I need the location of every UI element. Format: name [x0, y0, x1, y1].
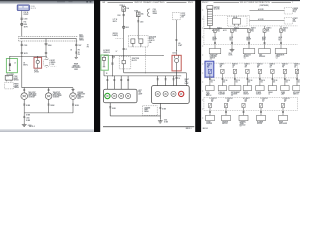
ground G301 — [158, 119, 168, 123]
svg-text:GY: GY — [284, 101, 286, 103]
wire below red box — [175, 72, 180, 86]
fuse bus3 FUSE 17 — [242, 98, 250, 108]
svg-text:WRNG: WRNG — [79, 40, 85, 42]
splice bus dashed outline — [19, 36, 78, 41]
svg-text:C306: C306 — [172, 52, 176, 54]
svg-text:DG: DG — [223, 82, 225, 84]
svg-text:18 BK: 18 BK — [164, 121, 168, 123]
svg-text:2: 2 — [292, 2, 293, 4]
svg-text:SWITCH: SWITCH — [222, 123, 227, 125]
component WIPER bus2 — [243, 86, 251, 96]
wire lamp drop — [23, 88, 25, 93]
svg-text:C1: C1 — [279, 40, 281, 42]
wire lamp to ground rail — [48, 99, 56, 112]
svg-text:18: 18 — [178, 78, 180, 80]
component INSTRUMENT bus2 — [229, 86, 241, 98]
page separator bar 1 — [94, 0, 100, 132]
svg-text:C1: C1 — [125, 49, 127, 51]
fuse bus2 FUSE 8 — [207, 64, 212, 74]
svg-text:C1: C1 — [7, 76, 9, 78]
svg-text:C1: C1 — [268, 94, 270, 96]
tail rail lower — [104, 74, 181, 77]
lamp 6 — [163, 91, 168, 96]
lamp label — [77, 92, 85, 100]
svg-text:C200: C200 — [24, 18, 28, 20]
svg-text:JUNCTION: JUNCTION — [149, 36, 156, 38]
svg-text:C302: C302 — [14, 76, 18, 78]
svg-text:PK: PK — [282, 67, 284, 69]
splice arrow — [72, 89, 75, 91]
fuse FUSE 1 row1 — [214, 28, 222, 33]
lamp label — [53, 91, 62, 99]
component BLOCK row1 — [243, 49, 255, 60]
pdc feed rail — [204, 28, 250, 29]
component dashed box top right — [173, 12, 186, 19]
ground rail middle page — [110, 114, 161, 117]
wire to generator — [249, 8, 284, 11]
svg-text:JUNCTION: JUNCTION — [132, 58, 139, 60]
fuse bus3 FUSE 18 — [259, 98, 267, 108]
svg-text:L50: L50 — [178, 43, 181, 45]
svg-text:L7: L7 — [14, 63, 16, 65]
svg-text:RD: RD — [207, 67, 209, 69]
in-line fuse (highlighted red) F3 — [34, 57, 42, 69]
svg-text:8W-10 POWER DISTRIBUTION: 8W-10 POWER DISTRIBUTION — [240, 2, 271, 4]
splice arrow tap3 — [75, 57, 78, 59]
connector C302 left column — [5, 76, 19, 82]
component STOP bus2 — [206, 86, 214, 98]
wire to starter — [249, 18, 284, 21]
svg-text:OR: OR — [245, 101, 247, 103]
svg-text:S300: S300 — [24, 24, 28, 26]
splice S300 — [21, 23, 28, 26]
right page sheet number — [203, 128, 208, 130]
wire below green connector — [104, 71, 107, 76]
fuse bus2 FUSE 11 — [245, 64, 251, 74]
component POWER bus2 — [256, 86, 264, 96]
svg-text:C303: C303 — [51, 64, 55, 66]
wire label — [24, 21, 27, 23]
svg-text:DG: DG — [211, 82, 213, 84]
junction block 2 dashed box — [119, 56, 139, 69]
svg-text:STOP: STOP — [34, 70, 38, 72]
connector on F1 wire — [117, 15, 125, 18]
svg-text:DG: DG — [294, 67, 296, 69]
svg-text:18 BK/WT: 18 BK/WT — [53, 97, 60, 99]
svg-text:PDC: PDC — [251, 30, 254, 32]
fuse block bus 3 dashed outline — [204, 98, 298, 111]
relay in pdc dashed box — [227, 16, 247, 26]
svg-text:PDC: PDC — [283, 30, 286, 32]
connector C305 on tap1 — [21, 44, 28, 47]
svg-text:FUSE 10: FUSE 10 — [149, 40, 155, 42]
fuse bus2 FUSE 14 — [282, 63, 288, 74]
svg-text:SWITCH: SWITCH — [206, 95, 211, 97]
svg-text:DG: DG — [273, 82, 275, 84]
fuse block bus dashed outline — [204, 63, 298, 78]
off-page reference label tap3 — [72, 63, 82, 71]
svg-text:STOP: STOP — [181, 13, 185, 15]
svg-text:8W: 8W — [102, 2, 105, 4]
wire below junction block 2 — [123, 69, 125, 73]
svg-text:C2: C2 — [276, 57, 278, 59]
connector oval label — [51, 60, 57, 66]
svg-text:18: 18 — [70, 50, 72, 52]
ground G300 — [22, 123, 32, 127]
wire right assembly ground — [159, 103, 166, 119]
connector on tap3 — [75, 44, 82, 47]
wire label center branch — [14, 63, 28, 67]
svg-text:8W-10 2: 8W-10 2 — [202, 2, 208, 4]
wire bus2 drop — [284, 74, 290, 86]
wire lamp drop — [48, 88, 50, 93]
svg-text:FUSE: FUSE — [31, 6, 35, 8]
component dashed box left column — [5, 83, 20, 90]
svg-text:WRNG: WRNG — [14, 80, 20, 82]
svg-text:C1: C1 — [240, 126, 242, 128]
svg-text:YL: YL — [262, 101, 264, 103]
svg-text:C1: C1 — [230, 40, 232, 42]
wire second drop — [111, 55, 113, 76]
svg-text:8W-51-1: 8W-51-1 — [186, 128, 192, 130]
wire label F32 — [24, 12, 29, 16]
fuse bus2 FUSE 15 — [294, 64, 300, 74]
wire bus2 drop — [296, 74, 302, 86]
svg-text:LICENSE: LICENSE — [144, 107, 150, 109]
svg-text:BK: BK — [257, 67, 259, 69]
top window edge — [0, 0, 300, 1]
svg-text:8W-51 REAR LIGHTING: 8W-51 REAR LIGHTING — [135, 1, 166, 4]
wire bus3 drop — [282, 108, 284, 116]
wire label F1 — [113, 19, 118, 23]
svg-text:18 BK/WT: 18 BK/WT — [28, 97, 35, 99]
component BLOWER bus3 — [257, 115, 266, 125]
svg-text:PK/WT: PK/WT — [24, 14, 29, 16]
wire ground drop — [23, 113, 25, 123]
wire bus3 drop — [225, 108, 227, 116]
svg-text:DEFOGGER: DEFOGGER — [72, 67, 82, 69]
wire tap 2 down — [45, 39, 47, 57]
svg-text:8W-10-2: 8W-10-2 — [203, 128, 208, 130]
svg-text:18: 18 — [23, 63, 25, 65]
wire bus2 drop — [247, 74, 253, 86]
component MODULE row1 — [259, 49, 271, 59]
wire from stop lamp switch — [175, 20, 177, 56]
svg-text:(CONTINUED): (CONTINUED) — [260, 5, 269, 7]
svg-text:BODY: BODY — [51, 60, 55, 62]
svg-text:G301: G301 — [164, 120, 168, 122]
splice arrow on tap2 — [45, 44, 52, 47]
ground wire labels — [26, 115, 31, 123]
lamp 2 — [112, 93, 117, 98]
switch connector (highlighted green) S1 — [6, 57, 17, 73]
svg-text:DEFOGGER: DEFOGGER — [279, 123, 287, 125]
wire bus2 drop — [272, 74, 278, 86]
connector ticks below junction block — [123, 49, 128, 52]
wire bus3 drop — [209, 108, 211, 116]
component FIELD row1 — [275, 49, 287, 60]
svg-text:18: 18 — [78, 52, 80, 54]
svg-text:PDC: PDC — [217, 30, 220, 32]
fuse FUSE 2 row1 — [231, 28, 239, 33]
svg-text:C307: C307 — [78, 45, 82, 47]
dashed continuation wire — [145, 47, 147, 73]
middle page sheet number — [186, 128, 192, 130]
svg-text:DG: DG — [236, 82, 238, 84]
wire row1 drop — [213, 32, 218, 48]
svg-text:LP SW: LP SW — [34, 72, 39, 74]
right lamp assembly label — [185, 79, 189, 85]
license lamp dashed box — [143, 106, 158, 116]
svg-text:WRNG: WRNG — [14, 87, 20, 89]
fuse bus2 FUSE 13 — [270, 64, 276, 74]
svg-text:BODY: BODY — [153, 11, 157, 13]
fuse bus3 FUSE 16 — [224, 98, 232, 108]
svg-text:8W-51-2: 8W-51-2 — [29, 126, 35, 128]
svg-text:18: 18 — [106, 73, 108, 75]
connector C200 — [20, 18, 27, 20]
svg-text:LB: LB — [270, 67, 272, 69]
svg-text:MOTOR: MOTOR — [257, 123, 262, 125]
lamp TAIL/STOP — [45, 93, 52, 100]
wire left assembly ground — [109, 103, 116, 116]
wire lamp drop — [72, 88, 74, 93]
svg-text:S302: S302 — [126, 27, 129, 29]
wire from fuse F2 — [137, 17, 143, 36]
node splice taps — [21, 37, 76, 40]
svg-text:LEFT: LEFT — [138, 90, 142, 92]
right page title bar — [202, 2, 293, 4]
splice bus label — [79, 34, 85, 41]
wire bus2 drop — [259, 74, 265, 86]
wire tap 3 down — [75, 39, 81, 58]
connector ticks tap2 lower — [45, 52, 47, 53]
wire label right margin — [87, 45, 90, 49]
svg-text:MODULE: MODULE — [259, 56, 265, 58]
tail feed rail middle page — [104, 54, 164, 57]
svg-text:BK/YL: BK/YL — [113, 21, 117, 23]
wire label — [24, 27, 29, 29]
splice S302 — [123, 26, 129, 29]
svg-text:C1: C1 — [262, 40, 264, 42]
wire lamp to ground rail — [23, 99, 31, 112]
lamp LICENSE — [70, 93, 77, 100]
svg-text:L7: L7 — [116, 51, 118, 53]
svg-text:12 BK: 12 BK — [229, 54, 233, 56]
svg-text:18: 18 — [87, 45, 89, 47]
stop rail — [124, 72, 187, 85]
svg-text:C1: C1 — [247, 40, 249, 42]
ground rail — [24, 112, 73, 114]
svg-text:F32 18: F32 18 — [24, 12, 29, 14]
connector (highlighted green) middle page — [101, 55, 108, 70]
wire bus3 drop — [260, 108, 262, 116]
svg-text:BLOCK: BLOCK — [149, 38, 154, 40]
svg-text:SOL: SOL — [293, 21, 296, 23]
svg-text:C1: C1 — [210, 59, 212, 61]
svg-text:WINDOW: WINDOW — [73, 65, 80, 67]
svg-text:DG: DG — [298, 82, 300, 84]
wire row1 drop — [247, 32, 251, 48]
svg-text:PDC: PDC — [267, 30, 270, 32]
connector ticks tap1 lower — [21, 52, 29, 55]
component LEVELING row1 — [209, 49, 221, 61]
svg-text:DG: DG — [248, 82, 250, 84]
splice arrow on rail — [112, 57, 115, 59]
svg-text:WRNG: WRNG — [144, 111, 148, 113]
left tail lamp assembly — [103, 89, 137, 103]
fuse F1 middle page — [120, 4, 129, 11]
left page bottom sheet label — [29, 126, 35, 128]
middle page bottom frame — [103, 126, 194, 128]
red fuse label — [34, 70, 39, 74]
fuse bus2 FUSE 9 — [220, 64, 225, 74]
svg-text:18 WT: 18 WT — [178, 45, 182, 47]
svg-text:BODY: BODY — [79, 38, 83, 40]
svg-text:S301: S301 — [79, 34, 83, 36]
svg-text:L77 18: L77 18 — [113, 19, 118, 21]
svg-text:C305: C305 — [24, 45, 28, 47]
connector oval C303 — [43, 57, 49, 68]
component TURN SIG bus2 — [218, 86, 226, 96]
svg-text:18 BK: 18 BK — [112, 108, 116, 110]
page separator bar 2 — [195, 0, 201, 132]
svg-text:C1: C1 — [213, 40, 215, 42]
wire center branch down — [21, 57, 23, 88]
svg-text:RIGHT: RIGHT — [185, 79, 189, 81]
lamp TAIL/STOP — [21, 93, 28, 100]
red box top label — [172, 52, 176, 54]
wire label tap3 — [70, 50, 80, 52]
starter dashed box — [284, 17, 298, 24]
svg-text:C100: C100 — [153, 9, 157, 11]
fuse bus2 FUSE 12 — [257, 64, 263, 74]
wire bus2 drop — [209, 74, 215, 86]
svg-text:WRNG C2: WRNG C2 — [103, 52, 110, 54]
component GROUND row1 — [229, 48, 235, 56]
wire row1 drop — [279, 32, 283, 48]
left page bottom scrollbar strip — [0, 129, 94, 132]
fuse block (highlighted) left page — [17, 5, 29, 11]
pdc dashed outline top — [213, 16, 297, 26]
component CIGAR bus3 — [206, 115, 215, 125]
connector grid C100 — [147, 9, 157, 16]
right lamp assembly feed wires — [157, 76, 175, 86]
svg-text:BODY: BODY — [14, 78, 18, 80]
wire from fuse F1 — [123, 11, 125, 55]
wire lamp to ground rail — [72, 99, 80, 112]
component HTD SEAT bus2 — [293, 86, 300, 96]
lamp feed rail — [22, 87, 73, 89]
fuse FUSE 5 row1 — [280, 26, 288, 33]
component IGNITION bus3 — [222, 115, 231, 125]
node rail junctions — [9, 55, 38, 58]
wire battery to pdc rail — [209, 26, 211, 29]
fuse F2 middle page — [134, 10, 143, 16]
svg-text:C2: C2 — [231, 95, 233, 97]
connector ticks — [48, 90, 50, 91]
svg-text:LG: LG — [232, 67, 234, 69]
fuse FUSE 4 row1 — [263, 26, 271, 33]
lamp 8 red highlighted — [179, 91, 184, 96]
svg-text:RD: RD — [227, 101, 229, 103]
junction block dashed box middle — [128, 35, 156, 47]
left note block — [113, 33, 123, 38]
svg-text:BLOCK: BLOCK — [132, 60, 137, 62]
svg-text:G300: G300 — [77, 98, 81, 100]
wire label left of F1 wire — [116, 51, 118, 53]
subtitle continued — [260, 5, 269, 7]
svg-text:OUTLET: OUTLET — [256, 94, 262, 96]
component REAR bus3 — [279, 115, 288, 125]
right tail lamp assembly — [152, 86, 190, 104]
node lamp rail taps — [24, 86, 49, 89]
svg-text:C5: C5 — [244, 57, 246, 59]
labels above rail — [103, 49, 110, 54]
svg-text:TN: TN — [220, 67, 222, 69]
wire label stop lamp — [178, 43, 182, 47]
svg-text:8W-51: 8W-51 — [188, 2, 193, 4]
middle page title bar — [102, 1, 193, 4]
green connector label — [7, 74, 15, 78]
svg-text:C200: C200 — [117, 15, 121, 17]
fuse bus3 FUSE 19 — [281, 98, 289, 108]
wire bus2 drop — [234, 74, 240, 86]
fuse FUSE 3 row1 — [248, 28, 256, 33]
svg-text:SWITCH: SWITCH — [293, 94, 298, 96]
svg-text:WRNG: WRNG — [153, 13, 157, 15]
wire row1 drop — [262, 32, 266, 48]
fuse highlighted blue — [205, 61, 214, 77]
pdc lower dashed outline — [204, 16, 298, 45]
component CENTRAL bus3 — [239, 115, 248, 127]
row marker column right page — [202, 10, 203, 118]
lamp 3 — [119, 93, 124, 98]
lamp 4 — [126, 93, 131, 98]
splice wire bus — [20, 38, 77, 40]
wire fused B+ from fuse block — [21, 11, 23, 37]
svg-text:18 BK: 18 BK — [162, 109, 166, 111]
pdc rail labels — [212, 29, 227, 32]
battery feed stack — [207, 6, 220, 26]
svg-text:SWITCH: SWITCH — [243, 94, 248, 96]
svg-text:PDC: PDC — [234, 30, 237, 32]
fuse bus2 FUSE 10 — [232, 64, 238, 74]
svg-text:LIGHTER: LIGHTER — [206, 123, 212, 125]
left lamp assembly feed wires — [106, 76, 129, 89]
component DOME bus2 — [281, 86, 289, 96]
svg-text:DG: DG — [286, 82, 288, 84]
svg-text:BK/YL: BK/YL — [23, 64, 28, 66]
component RADIO bus2 — [268, 86, 276, 96]
lamp left green highlighted — [105, 93, 110, 98]
left lamp assembly label — [138, 90, 142, 96]
generator dashed box — [284, 7, 298, 14]
stop lamp switch output (highlighted red) middle page — [172, 55, 181, 72]
connector ticks — [23, 90, 25, 91]
svg-text:F32: F32 — [24, 21, 27, 23]
wire bus2 drop — [222, 74, 228, 86]
wire row1 drop — [230, 32, 234, 48]
lamp 5 — [155, 91, 160, 96]
svg-text:WRNG: WRNG — [51, 62, 57, 64]
wire feed rail — [10, 56, 47, 58]
wire bus3 drop — [243, 108, 245, 116]
svg-text:WT: WT — [245, 67, 247, 69]
svg-text:(W/FOG: (W/FOG — [113, 33, 118, 35]
lamp label — [28, 91, 36, 99]
svg-text:BLOCK: BLOCK — [31, 8, 36, 10]
